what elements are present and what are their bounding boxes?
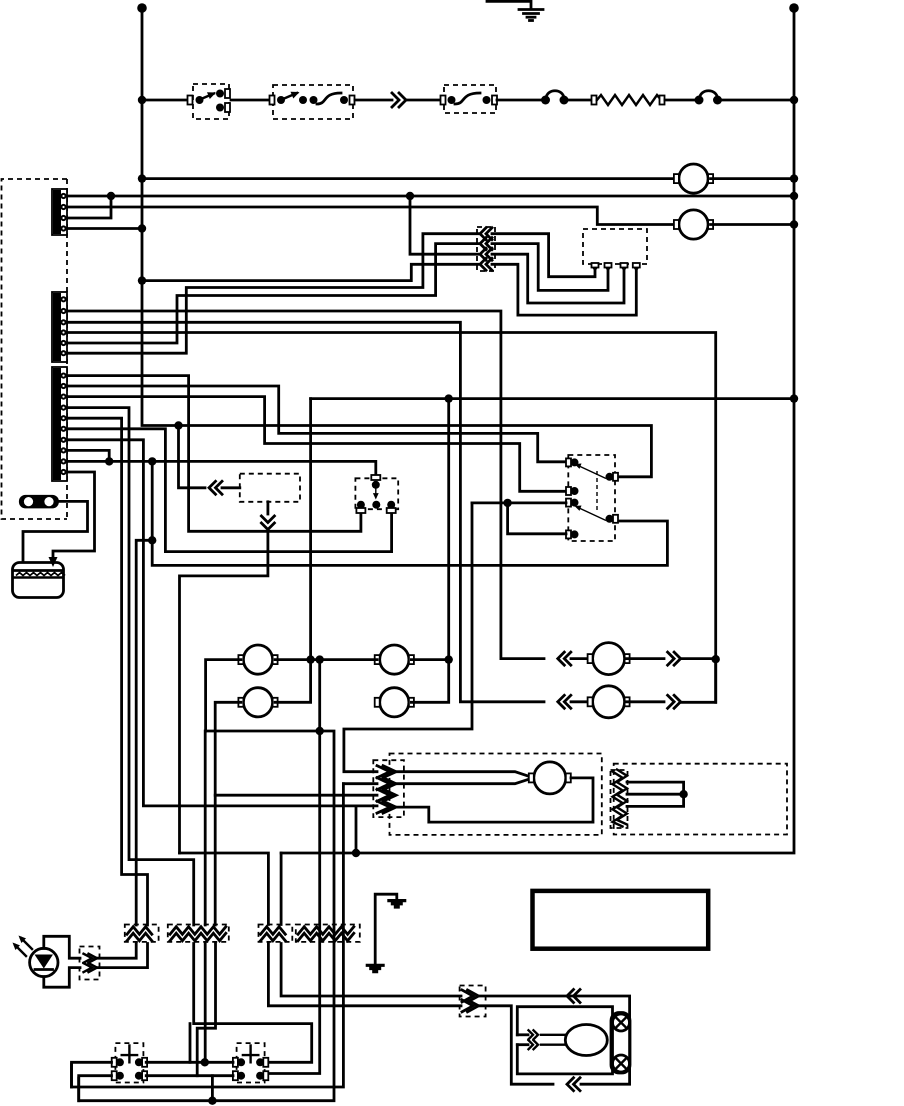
wire SW1 to SW2	[231, 99, 270, 102]
connector CN6 (2-wire chevron block, dashed)	[125, 925, 159, 942]
wire accessory line y=196 connector CN1 pin1 to right bus	[67, 195, 794, 198]
wire R1 to fuse F2	[665, 99, 698, 102]
wire x=205.2 hourmeter ground drop	[204, 731, 207, 925]
node junction right-bus y=196	[790, 192, 798, 200]
connector CN2 (6-pin block)	[52, 292, 67, 362]
motor M3 starter motor	[534, 762, 566, 794]
wire engine lead 3	[627, 794, 684, 806]
fuse F1 (loop symbol)	[541, 96, 550, 105]
wire CN1 pin4 to left bus	[67, 227, 142, 230]
ground GND1 (top center)	[519, 8, 543, 11]
connector CN3 (10-pin block)	[52, 367, 67, 481]
node ball top-left	[137, 3, 147, 13]
node junction x=178.5 y=425.5	[174, 421, 182, 429]
wire SW7 row2 left to ground bus	[79, 1076, 112, 1101]
wire CN10 row2 to starter motor plus	[396, 780, 528, 784]
wire SW6 L3 L4 jumper to interlock feed	[472, 501, 566, 504]
wire CN3 pin1 to brake switch bottom-left	[67, 376, 361, 532]
wire left bus to CN5 row4	[142, 264, 478, 280]
wire CN9 down to lower-left run	[180, 530, 268, 854]
node junction engine leads	[679, 790, 687, 798]
switch SW3 (dashed box with flex wire)	[444, 85, 496, 113]
wire SW7 row1 right riser	[189, 1024, 192, 1063]
wire headlamp row y=179 from left bus	[142, 177, 678, 180]
connector chevron on outer top wire	[567, 990, 574, 1003]
wire CN11 wire1 down to solenoid feed row1	[268, 944, 461, 1006]
wire CN13 row2 to CN6 wire2	[96, 944, 148, 968]
resistor R1 (zigzag element)	[592, 96, 597, 105]
wire SW7 row1 right bus to SW8 row1 left	[146, 1061, 233, 1064]
connector CN7 (3-wire chevron block, dashed)	[168, 925, 229, 942]
connector chevrons right of motor M1	[627, 657, 664, 660]
starter housing (dashed box)	[390, 754, 602, 835]
switch SW5 brake (dashed box)	[355, 478, 398, 509]
node junction right-bus top row	[790, 96, 798, 104]
node junction x=152.2 y=461.4	[148, 457, 156, 465]
module U1 pins	[592, 263, 599, 268]
wire seat line x=152.2 down to PTO switch R2	[152, 461, 667, 565]
node junction x=319.7 y=659.6	[316, 655, 324, 663]
wire CN3 pin5 down to connector CN6 row2	[67, 418, 148, 925]
wire CN3 pin6 to brake switch bottom-right	[67, 429, 392, 552]
wire x=448.7 riser	[447, 399, 450, 660]
node junction x=356 y=853	[352, 849, 360, 857]
wire CN5 row1 to module pin1	[492, 234, 595, 277]
node junction x=204.8 y=1062.3	[201, 1058, 209, 1066]
node junction x=507.6 y=502.9	[503, 499, 511, 507]
wire CN10 row4 to starter motor minus (U path)	[396, 778, 593, 822]
wire starter row3 from lamp ground run	[215, 794, 377, 797]
connector CN13 (2-wire chevron, dashed)	[80, 947, 100, 980]
wire CN8 to SW4 box	[222, 486, 240, 489]
wire x=319.7 drop to interlock SW8 row2	[270, 660, 320, 1074]
wire CN2 pin5 to CN5 row2	[67, 244, 478, 343]
wire F1 to resistor R1	[566, 99, 592, 102]
lamp L5 (front right)	[380, 645, 409, 674]
wire starter row2 ground drop	[343, 782, 377, 785]
wire CN2 pin2 to left electric clutch coil	[67, 311, 544, 659]
wire solenoid loop outer top	[478, 996, 630, 1084]
lamp L4 (rear left)	[243, 688, 272, 717]
lamp L2 headlight lower	[679, 210, 708, 239]
wire L1 to right bus	[711, 177, 795, 180]
connector CN1 (4-pin block)	[52, 189, 67, 235]
node junction left-bus top row	[138, 96, 146, 104]
connector chevrons left of motor M2	[558, 695, 565, 708]
ground GND2 (upper)	[387, 899, 406, 909]
battery BT1	[13, 563, 64, 598]
wire CN11 wire2 down to solenoid feed row2	[281, 944, 461, 997]
wire ground bus from L3 via x=334 to bottom	[79, 731, 334, 1101]
wire L4 right up to lamp row	[275, 660, 311, 703]
wire node down to M2 right	[714, 659, 717, 703]
wire CN2 pin4 to clutch return	[67, 333, 716, 703]
wire L3 left to ground run	[206, 660, 241, 731]
SW5 bottom terminals	[356, 508, 365, 513]
wire CN1 pin2 line y=207 to lamp L2	[67, 207, 678, 225]
wire CN11 wire2 top	[280, 853, 283, 925]
node junction x=448.7 y=659.6	[445, 655, 453, 663]
wire CN5 row4 to module pin4	[492, 264, 636, 315]
switch SW2 (dashed box with contacts and flex wire)	[273, 85, 353, 119]
wire solenoid loop outer bottom	[478, 1006, 553, 1084]
SW6 left terminals	[566, 458, 571, 466]
ground GND3 (lower)	[366, 964, 385, 974]
wire CN13 row1 to CN6 wire1	[96, 944, 136, 959]
wire CN7 wire1 down jog to SW8 row1 right riser	[194, 944, 312, 1063]
node junction right-bus y=398.6	[790, 394, 798, 402]
node junction right-bus y=224.5	[790, 220, 798, 228]
wire branch to hourmeter connector CN6 row1	[136, 540, 152, 925]
connector CN12 (3-wire chevron block, dashed)	[296, 925, 360, 942]
solenoid K1 coil (oval)	[565, 1025, 607, 1056]
connector housing (large dashed boundary)	[2, 179, 68, 519]
wire CN5 row2 to module pin2	[492, 244, 608, 291]
starter connector CN10 (4-wire chevrons, dashed)	[373, 760, 404, 817]
connector chevrons right of motor M2	[627, 700, 664, 703]
solenoid K1 coil leads	[517, 1033, 528, 1036]
node junction x=152.2 y=540.3	[148, 536, 156, 544]
wire engine lead 2	[627, 793, 684, 796]
wire starter row4 tap down to main ground line	[355, 806, 358, 853]
wire CN3 pin9 line to key switch top	[67, 461, 376, 475]
SW5 top terminal	[371, 475, 380, 480]
wire CN1 pin3 up to pin1 line	[67, 196, 111, 218]
lamp L1 headlight upper	[679, 164, 708, 193]
wire SW2 to connector CN4	[355, 99, 392, 102]
wire key line branch down to SW4 input connector	[179, 426, 206, 488]
wire L4 left down to hourmeter lamp run	[215, 702, 241, 925]
wire SW7 row2 right to SW8 row2 left	[146, 1074, 233, 1077]
connector CN11 (2-wire chevron block, dashed)	[259, 925, 293, 942]
node junction left-bus y=228.5	[138, 224, 146, 232]
wire SW7 row1 left to starter ground line	[72, 1062, 112, 1087]
lamp L3 (front left)	[243, 645, 272, 674]
wire CN2 pin6 to CN5 row1	[67, 234, 478, 354]
wire interlock feed down-left to starter connector row1	[344, 503, 472, 772]
wire F2 to right bus	[720, 99, 794, 102]
node junction x=319.7 y=731	[316, 727, 324, 735]
wire lamp row L3-L5	[275, 658, 377, 661]
node junction y=398.6 x=448.7	[445, 394, 453, 402]
node ball top-right	[789, 3, 799, 13]
lamp L6 (rear right)	[380, 688, 409, 717]
connector chevrons on coil leads	[529, 1030, 534, 1039]
SW6 actuator arrows	[578, 466, 606, 479]
spark terminal X2 lower	[613, 1055, 630, 1072]
node junction y=196 x=111	[107, 192, 115, 200]
connector CN5 (4-wire inline, dashed)	[477, 227, 495, 271]
wire CN2 pin3 to right electric clutch coil	[67, 322, 544, 702]
node junction x=310.6 y=659.6	[306, 655, 314, 663]
module U1 (dashed box, e.g. interlock module)	[583, 229, 647, 264]
engine connector strip (dashed)	[611, 770, 628, 828]
wire CN3 pin3 branch line y=398.6 to right bus	[311, 397, 794, 400]
legend box (bold rectangle)	[533, 891, 709, 949]
node junction left-bus y=179	[138, 174, 146, 182]
node junction left-bus y=280.6	[138, 276, 146, 284]
wire L2 to right bus	[711, 223, 795, 226]
wire SW3 to fuse F1	[497, 99, 545, 102]
spark terminal X1 upper	[613, 1014, 630, 1031]
wire top ground feed	[487, 1, 531, 9]
node junction x=715.7 y=659.2	[712, 655, 720, 663]
wire CN5 row3 to module pin3	[492, 254, 624, 303]
solenoid inner frame	[517, 1007, 612, 1074]
wire L6 right up to node 448.7	[411, 660, 448, 703]
wire dashed housing right edge	[66, 179, 68, 519]
wire CN11 wire1 top	[180, 853, 269, 925]
wire CN3 pin10 to battery positive	[53, 472, 95, 559]
connector CN14 (2-wire chevron, dashed)	[460, 986, 486, 1017]
wire CN10 row1 to starter motor plus	[396, 772, 528, 776]
motor M2 circle	[571, 700, 591, 703]
wire y196 node to CN5 row3	[410, 196, 478, 254]
wire main left bus B+ vertical x=142	[142, 8, 179, 426]
wire fuse to battery	[23, 501, 88, 561]
wire coil leads to coil	[541, 1034, 566, 1036]
connector CN8 inline (double chevron left)	[209, 481, 216, 494]
wire U2 output down with connector	[266, 502, 269, 514]
wire CN4 to switch SW3	[406, 99, 441, 102]
SW6 dashed link	[596, 471, 598, 512]
SW5 internal contacts	[372, 481, 380, 489]
node junction y=196 x=410	[406, 192, 414, 200]
SW6 right terminals	[606, 473, 614, 481]
connector CN4 inline (double chevron)	[399, 93, 406, 107]
wire CN3 pin7 to starter connector row4	[67, 440, 377, 806]
wire LED top loop to connector CN13	[44, 936, 80, 958]
motor M1 circle	[571, 657, 591, 660]
wire LED bottom loop to connector CN13	[44, 968, 80, 988]
wire engine lead 1	[627, 782, 684, 794]
switch SW7 interlock (dashed box with cross)	[115, 1043, 143, 1082]
node junction x=212.4 y=1100.7	[208, 1097, 216, 1105]
node junction right-bus y=178	[790, 174, 798, 182]
switch SW1 (interlock, dashed) terminals and contacts	[193, 84, 229, 119]
engine module (large dashed box right)	[614, 764, 787, 835]
wire CN3 pin3 to PTO switch L2	[67, 397, 566, 492]
wire CN7 wire3 down to SW7 row2	[197, 944, 215, 1076]
connector chevron on outer bottom wire	[567, 1078, 574, 1091]
wire CN3 pin2 to PTO switch L1	[67, 386, 566, 462]
wire CN3 pin4 down to connector CN7 row1	[67, 408, 194, 925]
node junction x=109.2 y=461.4	[105, 457, 113, 465]
lamp DS1 hour meter (LED in circle)	[30, 948, 58, 976]
fuse F2 (loop symbol)	[695, 96, 704, 105]
switch SW6 PTO (dashed box)	[568, 455, 615, 541]
wire ground stub	[375, 894, 397, 964]
switch SW8 interlock (dashed box with cross)	[237, 1043, 265, 1082]
wire CN3 pin8 down to pin9 line	[67, 450, 109, 461]
wire key line y=425.5 to PTO switch R1	[179, 426, 652, 477]
fuse holder F3	[19, 495, 59, 509]
engine block frame (rounded)	[611, 1013, 630, 1074]
module U2 (dashed box)	[240, 474, 300, 502]
connector chevrons left of motor M1	[558, 652, 565, 665]
connector CN9 inline (double chevron down)	[261, 516, 274, 523]
wire L5 right to x=448.7 drop	[411, 658, 448, 661]
wire drop to bottom ground node	[211, 1076, 214, 1101]
battery BT1 feed arrowhead	[49, 557, 58, 567]
LED emission arrows	[21, 938, 32, 949]
wire CN7 wire2 down to node	[204, 944, 207, 1063]
wire main right bus vertical x=794 with bottom run	[281, 8, 794, 853]
wire top row from left bus to switch SW1	[142, 99, 190, 102]
wire x=310.6 riser	[309, 399, 312, 660]
wire M1 right to node	[681, 657, 716, 660]
wire L3 node down to L4	[508, 503, 566, 534]
